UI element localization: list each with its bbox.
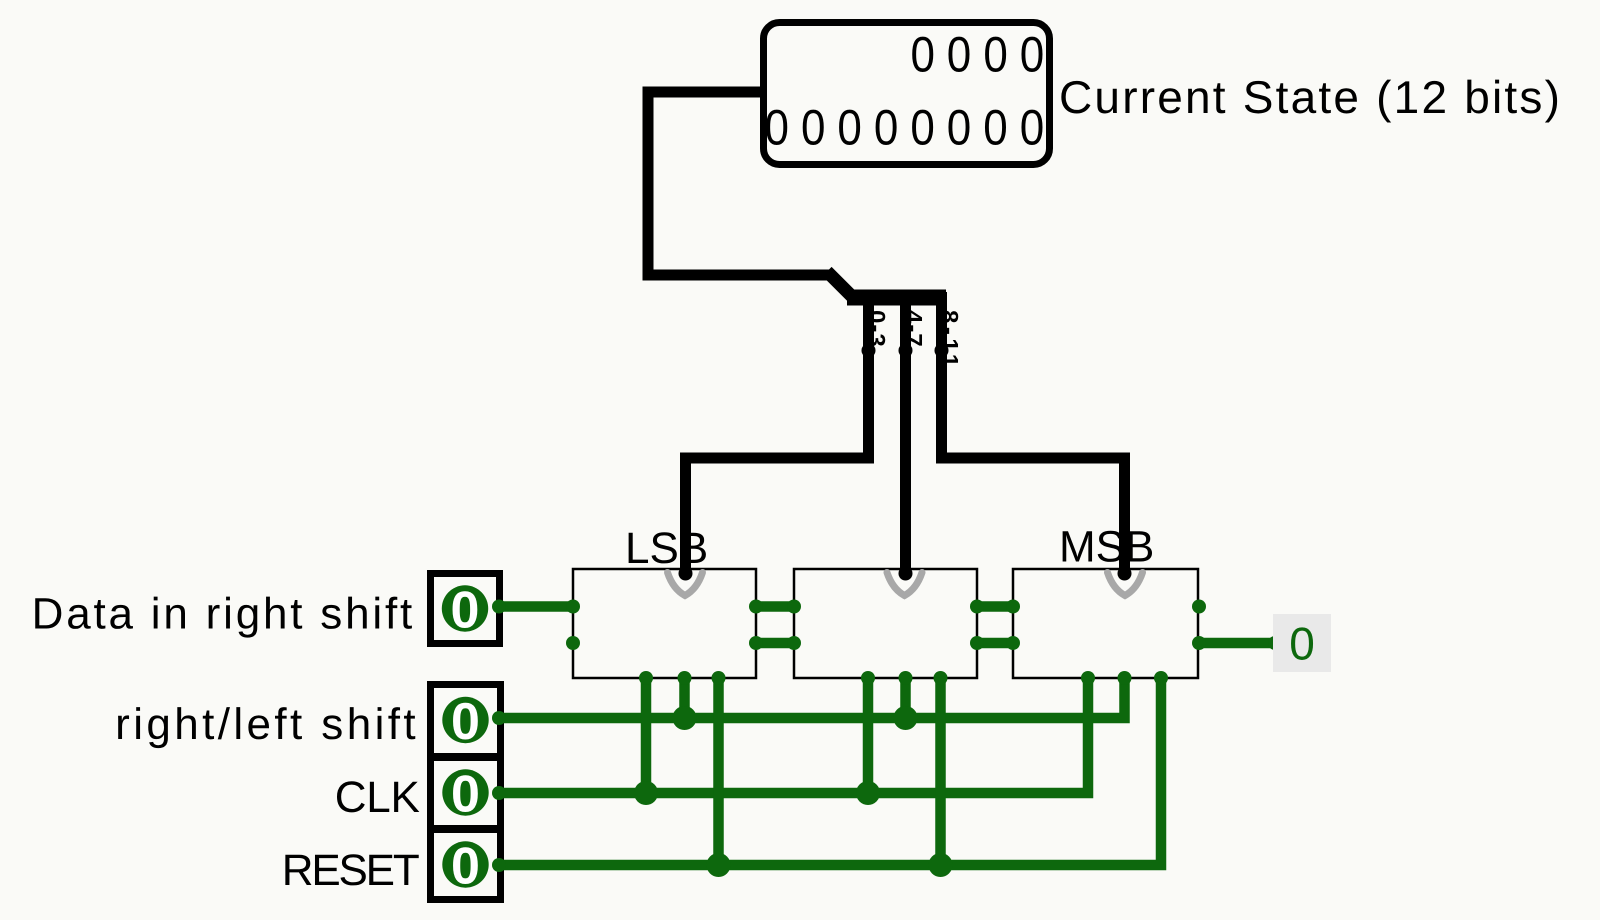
- svg-text:0: 0: [451, 693, 480, 751]
- svg-text:8-11: 8-11: [936, 310, 963, 371]
- svg-text:0: 0: [874, 99, 898, 155]
- svg-text:Data in right shift: Data in right shift: [32, 590, 415, 639]
- svg-text:0: 0: [837, 99, 861, 155]
- svg-text:0: 0: [983, 99, 1007, 155]
- svg-text:Current State (12 bits): Current State (12 bits): [1059, 71, 1562, 123]
- svg-text:0: 0: [1289, 618, 1315, 670]
- svg-text:CLK: CLK: [335, 773, 420, 822]
- svg-text:right/left shift: right/left shift: [115, 700, 419, 749]
- svg-text:0: 0: [764, 99, 788, 155]
- svg-text:0: 0: [801, 99, 825, 155]
- svg-text:0: 0: [1020, 99, 1044, 155]
- svg-text:LSB: LSB: [625, 524, 708, 573]
- svg-text:0: 0: [947, 99, 971, 155]
- svg-text:4-7: 4-7: [900, 310, 927, 348]
- svg-text:0: 0: [947, 26, 971, 82]
- svg-text:0: 0: [451, 766, 480, 824]
- svg-text:MSB: MSB: [1059, 523, 1154, 572]
- svg-text:0: 0: [451, 582, 480, 640]
- svg-text:RESET: RESET: [282, 846, 419, 895]
- svg-text:0: 0: [983, 26, 1007, 82]
- svg-text:0: 0: [451, 838, 480, 896]
- svg-text:0: 0: [1020, 26, 1044, 82]
- svg-text:0: 0: [910, 26, 934, 82]
- svg-text:0: 0: [910, 99, 934, 155]
- svg-text:0-3: 0-3: [863, 310, 890, 348]
